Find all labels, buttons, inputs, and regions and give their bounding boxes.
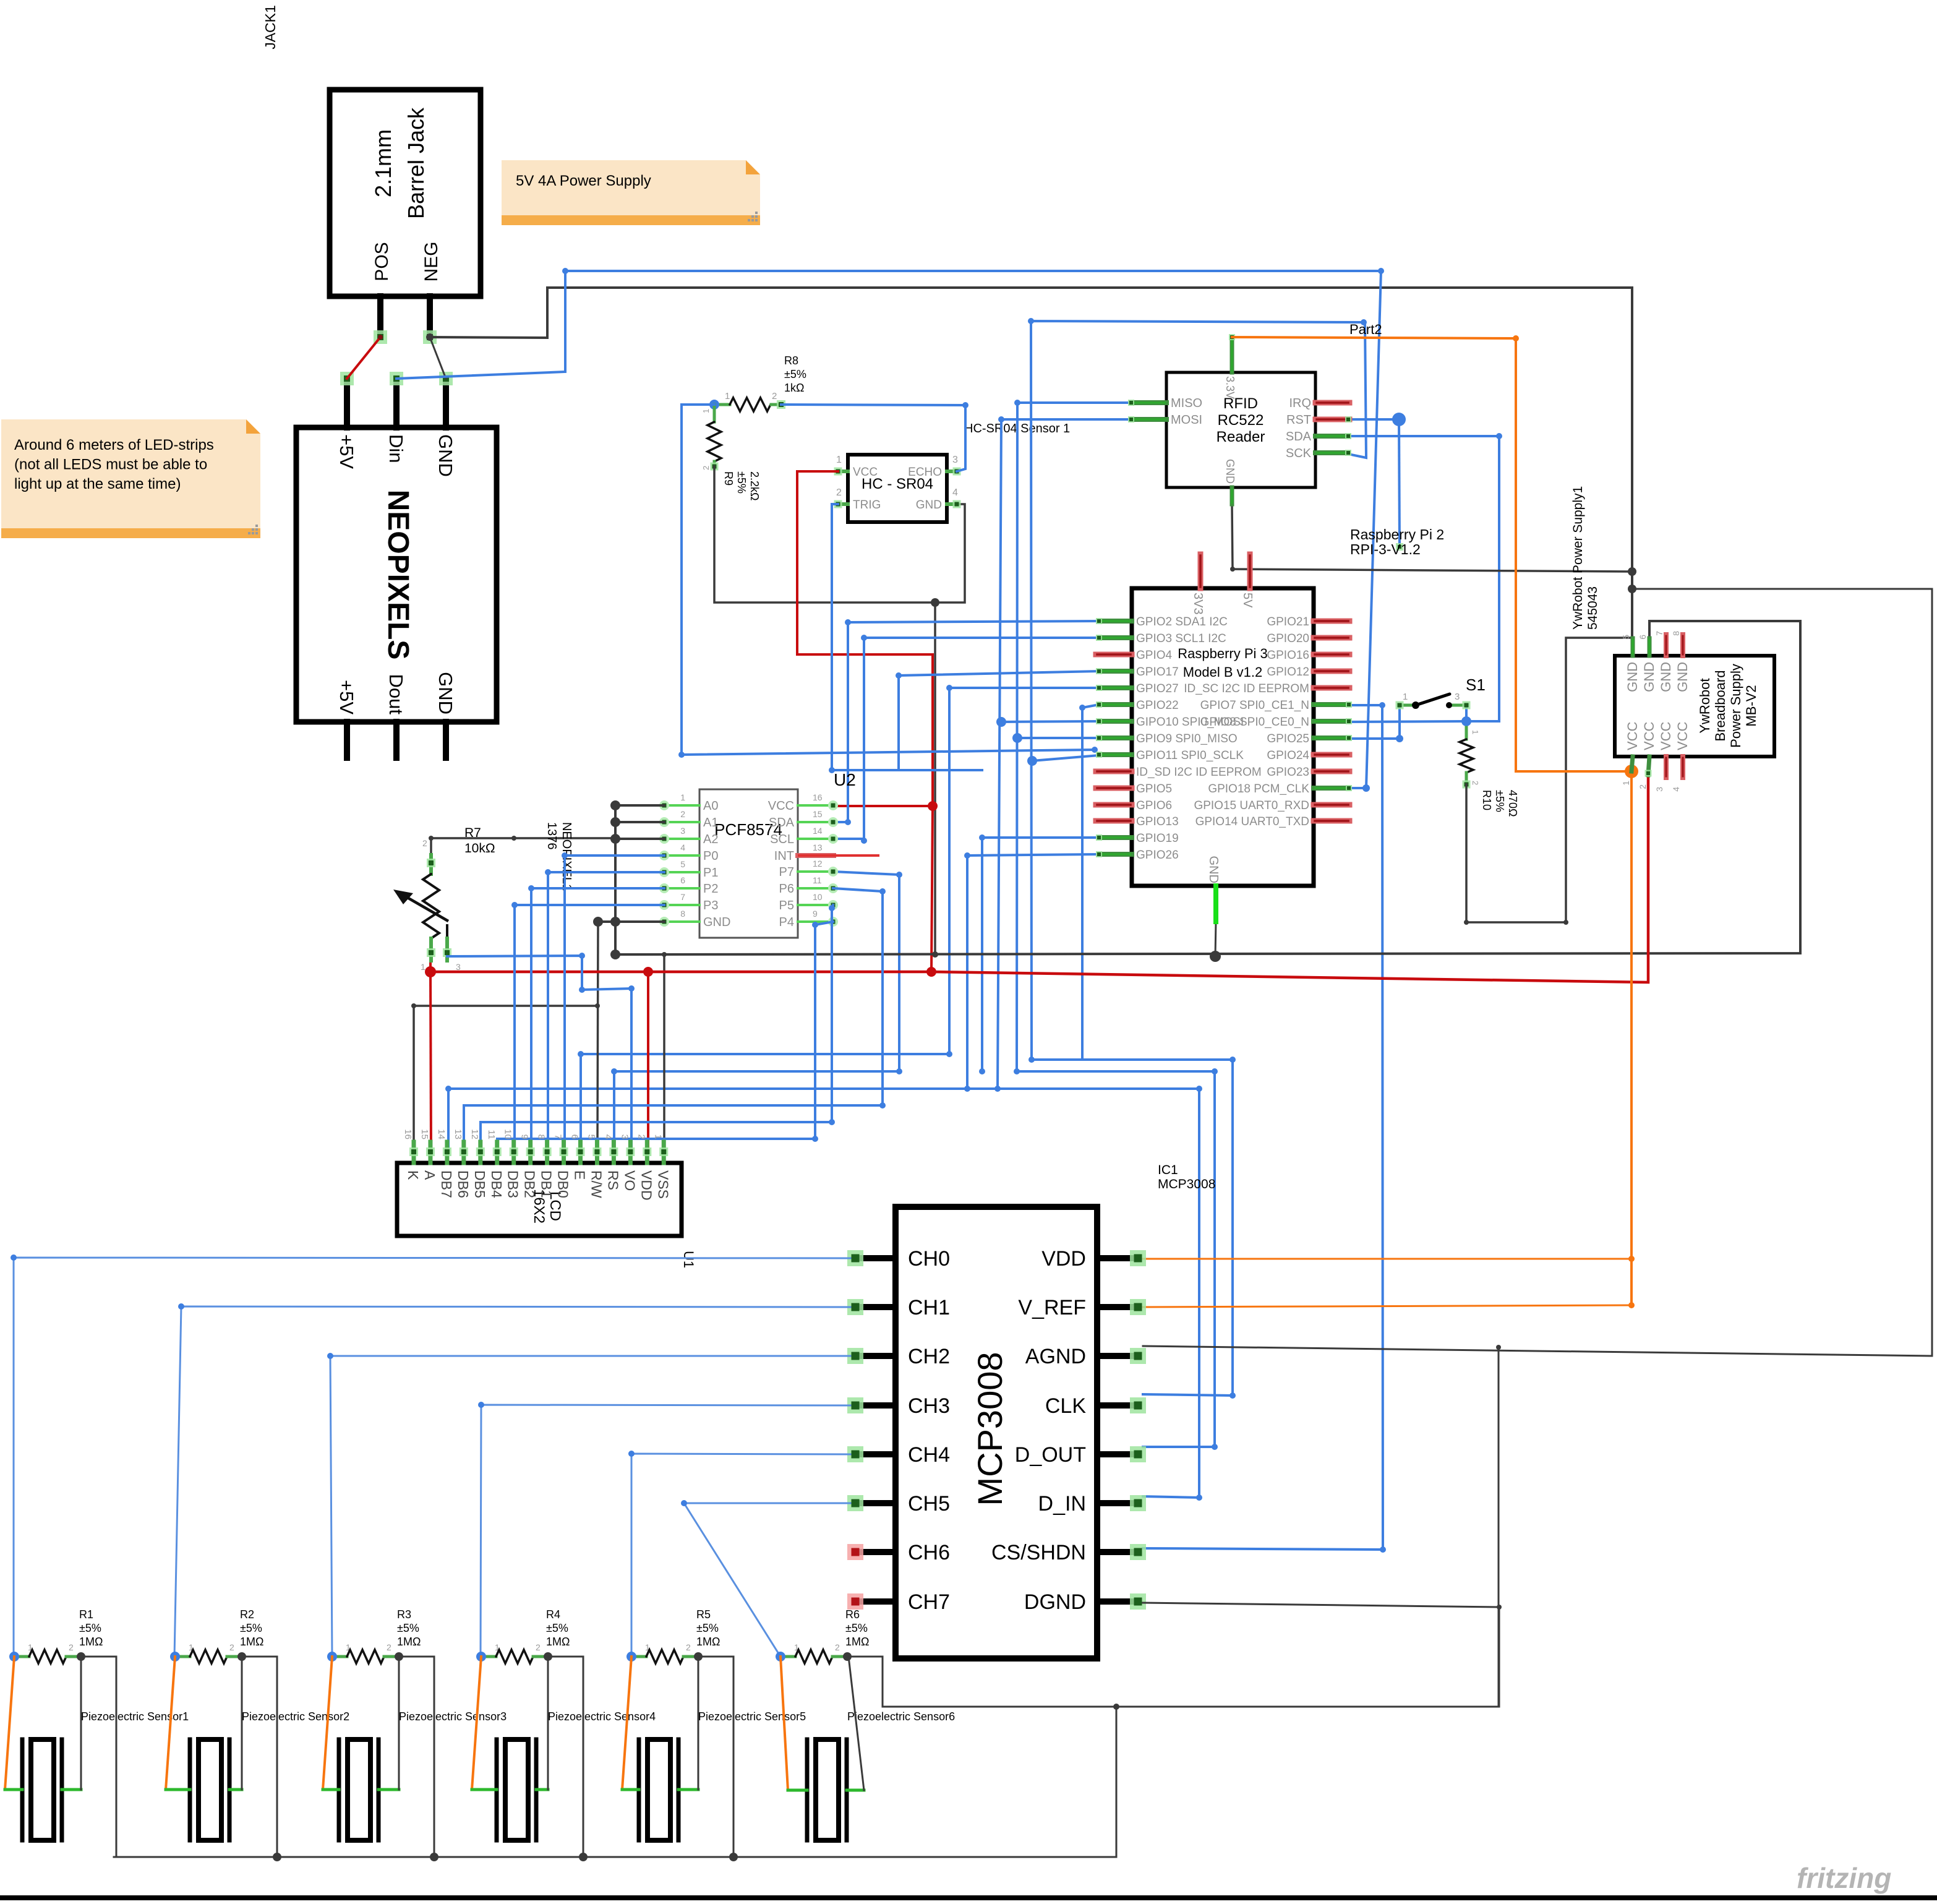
svg-text:2: 2	[422, 838, 427, 848]
wire GIPO10 MOSI stub	[1001, 721, 1099, 722]
svg-text:10kΩ: 10kΩ	[464, 841, 495, 856]
wire R4 pin1 to piezo4 left	[472, 1657, 497, 1790]
wire POS to NEOPIXELS +5V	[347, 335, 383, 379]
sensor HC-SR04	[836, 455, 958, 522]
pin ID_SD I2C ID EEPROM of Pi (nc)	[1096, 769, 1132, 774]
pin GPIO22 of Pi	[1096, 701, 1132, 708]
svg-text:4: 4	[952, 487, 958, 498]
wire P7 to LCD RS	[611, 872, 902, 1152]
pin CH3 of MCP3008	[847, 1397, 896, 1413]
pin GPIO21 of Pi (nc)	[1314, 619, 1349, 624]
wire CH2 to R3	[327, 1353, 850, 1657]
svg-text:VCC: VCC	[1625, 721, 1640, 750]
svg-text:Piezoelectric Sensor5: Piezoelectric Sensor5	[698, 1710, 806, 1723]
label Piezoelectric Sensor6	[847, 1710, 955, 1723]
svg-text:CH0: CH0	[908, 1247, 950, 1271]
svg-text:±5%: ±5%	[845, 1622, 868, 1634]
svg-text:470Ω: 470Ω	[1507, 790, 1519, 817]
svg-text:VCC: VCC	[853, 466, 878, 479]
wire VCC rail down to V_REF	[1625, 765, 1638, 1305]
svg-text:GND: GND	[1224, 459, 1236, 484]
pin VDD of MCP3008	[1097, 1250, 1146, 1266]
wire divider junction long row	[678, 405, 1098, 758]
pin SCL right of PCF8574	[798, 834, 838, 844]
svg-text:MOSI: MOSI	[1171, 413, 1202, 427]
svg-text:P6: P6	[779, 882, 794, 896]
svg-text:3: 3	[456, 962, 461, 972]
wire S1 pin3 down to R10	[1465, 705, 1468, 731]
svg-text:CH3: CH3	[908, 1394, 950, 1418]
wire RFID MISO to D_OUT	[1012, 400, 1218, 1450]
svg-text:16: 16	[403, 1129, 413, 1139]
wire RFID MOSI to D_IN	[445, 416, 1202, 1501]
piezo Piezoelectric Sensor6	[807, 1739, 847, 1840]
svg-text:GPIO8 SPI0_CE0_N: GPIO8 SPI0_CE0_N	[1200, 716, 1309, 729]
wire R6 net to DGND	[883, 1607, 1499, 1707]
wire PCF address pins to GND rail	[610, 800, 664, 959]
pin TRIG of HC-SR04	[834, 500, 849, 508]
svg-text:3V3: 3V3	[1191, 593, 1205, 615]
svg-text:light up at the same time): light up at the same time)	[14, 476, 181, 492]
svg-text:GPIO5: GPIO5	[1136, 783, 1172, 795]
svg-text:2: 2	[835, 1642, 840, 1652]
pin CH5 of MCP3008	[847, 1495, 896, 1511]
svg-text:1kΩ: 1kΩ	[784, 382, 804, 394]
svg-text:A0: A0	[703, 799, 718, 813]
svg-text:GPIO7 SPI0_CE1_N: GPIO7 SPI0_CE1_N	[1200, 699, 1309, 712]
watermark fritzing	[1797, 1862, 1891, 1894]
svg-text:Barrel Jack: Barrel Jack	[403, 107, 429, 219]
wire NEOPIXELS Din to GPIO18	[396, 268, 1384, 792]
wire HC-SR04 GND branch to GND bus	[932, 603, 938, 958]
pin GPIO19 of Pi	[1096, 834, 1132, 841]
svg-text:A: A	[422, 1170, 438, 1180]
pin R/W of LCD (5)	[586, 1134, 604, 1198]
svg-text:D_IN: D_IN	[1038, 1492, 1086, 1516]
svg-text:2: 2	[636, 1134, 646, 1139]
svg-text:DGND: DGND	[1024, 1590, 1086, 1614]
pin DB2 of LCD (9)	[520, 1134, 538, 1198]
svg-text:VCC: VCC	[768, 799, 794, 813]
svg-text:±5%: ±5%	[1494, 790, 1506, 812]
svg-text:1MΩ: 1MΩ	[79, 1636, 103, 1648]
svg-text:CH5: CH5	[908, 1492, 950, 1516]
pin VSS of LCD (1)	[652, 1134, 671, 1199]
svg-text:GPIO4: GPIO4	[1136, 649, 1173, 662]
svg-text:P4: P4	[779, 916, 794, 929]
pin CLK of MCP3008	[1097, 1397, 1146, 1413]
pin ECHO of HC-SR04	[947, 468, 961, 476]
svg-text:P2: P2	[703, 882, 718, 896]
wire V_REF to VCC rail	[1143, 1302, 1635, 1308]
svg-text:ID_SC I2C ID EEPROM: ID_SC I2C ID EEPROM	[1184, 682, 1309, 695]
svg-text:MB-V2: MB-V2	[1743, 685, 1759, 726]
svg-text:Raspberry Pi 3: Raspberry Pi 3	[1178, 646, 1268, 661]
svg-text:CH2: CH2	[908, 1345, 950, 1368]
svg-text:GPIO27: GPIO27	[1136, 682, 1179, 695]
wire R1 pin2 to GND bus	[81, 1657, 116, 1857]
svg-text:CS/SHDN: CS/SHDN	[991, 1541, 1086, 1564]
wire CH1 to R2	[174, 1303, 850, 1657]
svg-text:DB3: DB3	[505, 1170, 521, 1198]
wire CH5 to R6	[681, 1500, 850, 1657]
display LCD 16X2	[397, 1163, 682, 1236]
wire LCD E riser	[579, 1054, 582, 1152]
svg-text:RC522: RC522	[1218, 412, 1264, 429]
pin CH2 of MCP3008	[847, 1348, 896, 1364]
pin GPIO7 SPI0_CE1_N of Pi	[1314, 701, 1352, 708]
svg-text:A1: A1	[703, 816, 718, 830]
wire HC-SR04 VCC to VCC rail	[797, 471, 933, 806]
pin GPIO26 of Pi	[1096, 851, 1132, 857]
wire R5 pin1 to piezo5 left	[622, 1657, 639, 1790]
svg-text:DB0: DB0	[555, 1170, 571, 1198]
piezo Piezoelectric Sensor5	[639, 1739, 678, 1840]
svg-text:(not all LEDS must be able to: (not all LEDS must be able to	[14, 457, 207, 473]
pin P1 left of PCF8574	[659, 867, 699, 877]
svg-text:GPIO14 UART0_TXD: GPIO14 UART0_TXD	[1195, 815, 1309, 828]
svg-text:K: K	[405, 1170, 421, 1180]
pin 7 GND of YwRobot (nc)	[1654, 631, 1666, 656]
wire AGND to right rail	[1143, 589, 1932, 1356]
wire RFID SDA to CE0 row	[1348, 433, 1502, 721]
module NEOPIXELS	[296, 427, 497, 722]
pin VO of LCD (3)	[619, 1134, 638, 1191]
pin P7 right of PCF8574	[798, 867, 838, 877]
svg-text:2: 2	[686, 1642, 691, 1652]
label Part2	[1349, 322, 1382, 337]
wire GPIO8 CE0 to S1	[1349, 716, 1471, 726]
svg-text:13: 13	[453, 1129, 463, 1139]
svg-text:16: 16	[813, 792, 823, 802]
wire P5 to LCD DB5	[481, 905, 835, 1152]
svg-text:IC1: IC1	[1158, 1163, 1178, 1177]
wire GPIO19 down to MISO row	[979, 834, 1099, 1074]
resistor R5 1M	[626, 1608, 720, 1663]
svg-text:P3: P3	[703, 899, 718, 912]
pin GND top of NEOPIXELS	[439, 372, 453, 427]
wire P3 to LCD DB3	[511, 902, 664, 1152]
pin 1 VCC of YwRobot	[1621, 757, 1633, 786]
svg-text:6: 6	[680, 875, 685, 885]
svg-text:3: 3	[619, 1134, 630, 1139]
svg-text:P7: P7	[779, 865, 794, 879]
svg-text:4: 4	[602, 1134, 613, 1139]
svg-text:8: 8	[536, 1134, 547, 1139]
svg-text:VDD: VDD	[638, 1170, 654, 1201]
pin SDA right of PCF8574	[798, 817, 838, 827]
pin GPIO27 of Pi	[1096, 685, 1132, 691]
svg-text:DB2: DB2	[522, 1170, 538, 1198]
piezo Piezoelectric Sensor1	[22, 1739, 62, 1840]
pin E of LCD (6)	[570, 1134, 588, 1180]
wire GPIO7 CE1 to CS/SHDN	[1143, 702, 1386, 1553]
pin CH7 of MCP3008 (nc)	[847, 1593, 896, 1610]
wire R9 to HC-SR04 GND	[714, 466, 965, 607]
pin DGND of MCP3008	[1097, 1593, 1146, 1610]
wire RFID RST to Part2	[1348, 413, 1406, 551]
label HC-SR04 Sensor 1	[964, 422, 1070, 435]
svg-text:2: 2	[536, 1642, 541, 1652]
svg-text:GND: GND	[1625, 662, 1640, 692]
pin 3V3 of Pi (nc)	[1198, 554, 1204, 588]
pin GPIO8 SPI0_CE0_N of Pi	[1314, 718, 1352, 724]
pin 8 GND of YwRobot (nc)	[1671, 631, 1683, 656]
wire R2 pin1 to piezo2 left	[166, 1657, 190, 1790]
svg-text:Piezoelectric Sensor6: Piezoelectric Sensor6	[847, 1710, 955, 1723]
wire GPIO17 to row	[896, 671, 1099, 770]
svg-text:±5%: ±5%	[784, 368, 806, 380]
resistor R9 2.2k	[701, 405, 761, 500]
pin DB1 of LCD (8)	[536, 1134, 555, 1198]
pin POS of JACK1	[374, 296, 387, 344]
pin K of LCD (16)	[403, 1129, 421, 1180]
label Piezoelectric Sensor4	[548, 1710, 656, 1723]
svg-text:1: 1	[725, 391, 730, 401]
wire R3 pin2 to GND bus	[399, 1657, 434, 1857]
svg-text:±5%: ±5%	[79, 1622, 101, 1634]
svg-text:GPIO25: GPIO25	[1267, 732, 1309, 745]
pin GPIO20 of Pi (nc)	[1314, 635, 1349, 641]
svg-text:GPIO18 PCM_CLK: GPIO18 PCM_CLK	[1208, 783, 1309, 795]
svg-text:R/W: R/W	[588, 1170, 604, 1198]
svg-text:GPIO24: GPIO24	[1267, 749, 1309, 762]
svg-text:CLK: CLK	[1045, 1394, 1086, 1418]
page bottom border	[0, 1895, 1937, 1900]
svg-text:Part2: Part2	[1349, 322, 1382, 337]
resistor R8 1k	[709, 354, 806, 411]
svg-text:3: 3	[1654, 787, 1664, 792]
pin GPIO18 PCM_CLK of Pi	[1314, 785, 1352, 791]
svg-text:A2: A2	[703, 833, 718, 846]
svg-text:SCK: SCK	[1286, 447, 1312, 460]
svg-text:1: 1	[1621, 781, 1631, 786]
wire GPIO9 MISO stub	[1017, 737, 1099, 739]
svg-text:GPIO15 UART0_RXD: GPIO15 UART0_RXD	[1194, 799, 1309, 812]
svg-text:Piezoelectric Sensor3: Piezoelectric Sensor3	[399, 1710, 507, 1723]
wire R7 pin2 to PCF A2 rail	[429, 836, 614, 855]
wire DGND to branch	[1143, 1603, 1502, 1610]
pin GND left of PCF8574	[659, 917, 699, 927]
svg-text:GPIO2 SDA1 I2C: GPIO2 SDA1 I2C	[1136, 615, 1228, 628]
wire GPIO25 to S1 pin1	[1349, 705, 1403, 742]
resistor R1 1M	[9, 1608, 103, 1663]
svg-text:11: 11	[813, 875, 822, 885]
pin AGND of MCP3008	[1097, 1348, 1146, 1364]
svg-text:RST: RST	[1286, 413, 1311, 427]
label Piezoelectric Sensor2	[242, 1710, 349, 1723]
label Piezoelectric Sensor5	[698, 1710, 806, 1723]
svg-text:R3: R3	[397, 1608, 411, 1621]
pin 5 GND of YwRobot	[1621, 635, 1633, 656]
svg-text:GPIO21: GPIO21	[1267, 615, 1309, 628]
svg-text:GPIO23: GPIO23	[1267, 766, 1309, 779]
svg-text:+5V: +5V	[336, 434, 357, 469]
label Raspberry Pi 2 RPI-3-V1.2	[1350, 526, 1444, 557]
svg-text:MCP3008: MCP3008	[1158, 1177, 1215, 1191]
label IC1 MCP3008	[1158, 1163, 1215, 1191]
label U2	[834, 770, 856, 789]
svg-text:2.1mm: 2.1mm	[370, 129, 396, 197]
pin DB0 of LCD (7)	[553, 1134, 571, 1198]
wire P2 to LCD DB2	[528, 885, 664, 1152]
piezo Piezoelectric Sensor4	[497, 1739, 536, 1840]
svg-text:VSS: VSS	[655, 1170, 671, 1199]
svg-text:2: 2	[69, 1642, 74, 1652]
svg-text:SDA: SDA	[1286, 430, 1312, 444]
svg-text:11: 11	[486, 1130, 497, 1139]
connector JACK1 2.1mm Barrel Jack	[330, 90, 481, 296]
pin GPIO17 of Pi	[1096, 668, 1132, 674]
pin MOSI of RFID	[1128, 416, 1166, 422]
pin CH6 of MCP3008 (nc)	[847, 1544, 896, 1560]
svg-text:1MΩ: 1MΩ	[546, 1636, 570, 1648]
svg-text:5V: 5V	[1241, 593, 1254, 608]
svg-text:DB4: DB4	[489, 1170, 505, 1198]
svg-text:Piezoelectric Sensor1: Piezoelectric Sensor1	[81, 1710, 189, 1723]
pin P5 right of PCF8574	[798, 900, 838, 910]
wire P1 to LCD DB1	[545, 869, 664, 1152]
svg-text:1: 1	[680, 792, 685, 802]
wire GPIO3 SCL1 to PCF SCL	[833, 635, 1099, 844]
svg-text:1MΩ: 1MΩ	[240, 1636, 263, 1648]
wire sensors GND bus	[114, 1704, 1119, 1861]
svg-text:2: 2	[772, 391, 777, 401]
svg-text:12: 12	[813, 859, 823, 868]
svg-text:GPIO19: GPIO19	[1136, 832, 1179, 845]
wire R1 pin1 to piezo1 left	[5, 1657, 22, 1790]
wire AGND branch down	[1498, 1347, 1500, 1707]
svg-text:GPIO12: GPIO12	[1267, 666, 1309, 679]
svg-text:V_REF: V_REF	[1018, 1296, 1086, 1319]
pin GND bottom of NEOPIXELS	[443, 722, 449, 758]
wire R7 pin1 to LCD A	[430, 961, 431, 1152]
pin CH1 of MCP3008	[847, 1299, 896, 1315]
pin VCC right of PCF8574	[798, 800, 838, 810]
pin 4 VCC of YwRobot (nc)	[1671, 757, 1683, 792]
svg-text:RS: RS	[605, 1170, 621, 1190]
svg-text:Reader: Reader	[1217, 429, 1265, 445]
svg-text:U2: U2	[834, 770, 856, 789]
svg-text:3.3V: 3.3V	[1224, 376, 1236, 399]
wire piezo4 right to R4 pin2	[536, 1657, 548, 1790]
wire 5V bus	[425, 775, 1648, 982]
pin DB7 of LCD (14)	[436, 1129, 455, 1198]
pin +5V top of NEOPIXELS	[340, 372, 354, 427]
wire Pi GND to bus	[1215, 922, 1216, 956]
wire TRIG to GPIO17 row	[829, 504, 982, 773]
svg-text:6: 6	[1638, 635, 1648, 640]
wire R5 pin2 to GND bus	[698, 1657, 733, 1857]
board Raspberry Pi 3 Model B v1.2	[1132, 588, 1314, 886]
wire R6 pin1 to piezo6 left	[780, 1657, 807, 1790]
pin DB3 of LCD (10)	[503, 1129, 521, 1198]
svg-text:9: 9	[520, 1134, 530, 1139]
svg-text:VCC: VCC	[1658, 721, 1674, 750]
power jack JACK1 label	[262, 5, 278, 49]
wire VDD to VCC rail	[1143, 1256, 1635, 1262]
svg-text:TRIG: TRIG	[853, 499, 881, 512]
pin NEG of JACK1	[423, 296, 437, 344]
wire K to R/W rail	[411, 1003, 597, 1152]
wire piezo6 right to R6 pin2	[847, 1657, 864, 1790]
pin +5V bottom of NEOPIXELS	[344, 722, 350, 758]
svg-text:GND: GND	[435, 434, 456, 477]
svg-text:R2: R2	[240, 1608, 254, 1621]
svg-text:6: 6	[570, 1134, 580, 1139]
pin IRQ of RFID (nc)	[1315, 400, 1349, 406]
svg-text:±5%: ±5%	[240, 1622, 262, 1634]
wire NEG to GND rail	[426, 288, 1632, 638]
svg-text:DB1: DB1	[539, 1170, 555, 1198]
svg-text:1: 1	[1471, 730, 1480, 734]
svg-text:SCL: SCL	[770, 833, 794, 846]
svg-text:E: E	[572, 1170, 588, 1180]
svg-text:1: 1	[421, 962, 425, 972]
svg-text:Raspberry Pi 2: Raspberry Pi 2	[1350, 526, 1444, 542]
svg-text:JACK1: JACK1	[262, 5, 278, 49]
wire PCF GND stub	[598, 920, 664, 923]
pin ID_SC I2C ID EEPROM of Pi (nc)	[1314, 685, 1349, 691]
svg-text:R8: R8	[784, 354, 798, 367]
svg-text:±5%: ±5%	[735, 471, 748, 494]
pin GPIO4 of Pi (nc)	[1096, 652, 1132, 658]
svg-text:15: 15	[419, 1129, 430, 1139]
svg-text:Din: Din	[385, 434, 407, 463]
wire piezo2 right to R2 pin2	[229, 1657, 242, 1790]
svg-text:545043: 545043	[1586, 586, 1600, 630]
svg-text:3: 3	[952, 455, 958, 465]
svg-text:10: 10	[503, 1129, 513, 1139]
pin DB4 of LCD (11)	[486, 1130, 505, 1198]
wire R8 to ECHO	[781, 402, 968, 471]
svg-text:4: 4	[680, 843, 685, 852]
svg-text:5V 4A Power Supply: 5V 4A Power Supply	[516, 173, 651, 189]
switch S1	[1396, 675, 1486, 710]
wire CH0 to R1	[11, 1254, 850, 1657]
svg-text:8: 8	[1671, 631, 1681, 636]
svg-text:Breadboard: Breadboard	[1713, 671, 1728, 742]
svg-text:ECHO: ECHO	[908, 466, 942, 479]
svg-text:VO: VO	[622, 1170, 638, 1191]
pin P4 right of PCF8574	[798, 917, 838, 927]
svg-text:P1: P1	[703, 866, 718, 880]
wire NEG to NEOPIXELS GND	[430, 337, 446, 379]
svg-text:3: 3	[680, 826, 685, 836]
resistor R2 1M	[170, 1608, 263, 1663]
svg-text:SDA: SDA	[769, 816, 795, 830]
svg-text:VDD: VDD	[1041, 1247, 1086, 1271]
wire RFID SCK to CLK	[1027, 318, 1367, 1399]
svg-text:±5%: ±5%	[397, 1622, 419, 1634]
pin GIPO10 SPI0_MOSI of Pi	[1096, 718, 1132, 724]
wire GND bus	[615, 621, 1800, 962]
svg-text:1376: 1376	[545, 822, 558, 850]
IC U2 PCF8574	[680, 789, 823, 938]
ADC IC1 MCP3008	[896, 1207, 1097, 1658]
pin GPIO2 SDA1 I2C of Pi	[1096, 618, 1132, 624]
svg-text:3: 3	[1455, 692, 1460, 702]
pin Din of NEOPIXELS	[390, 372, 403, 427]
label U1	[681, 1251, 696, 1268]
svg-text:1: 1	[701, 409, 711, 413]
note: Around 6 meters of LED-strips	[1, 419, 260, 538]
svg-text:GPIO11 SPI0_SCLK: GPIO11 SPI0_SCLK	[1136, 749, 1244, 762]
svg-text:CH4: CH4	[908, 1443, 950, 1467]
pin SDA of RFID	[1315, 433, 1351, 439]
pin GPIO15 UART0_RXD of Pi (nc)	[1314, 802, 1349, 808]
svg-text:GPIO6: GPIO6	[1136, 799, 1172, 812]
